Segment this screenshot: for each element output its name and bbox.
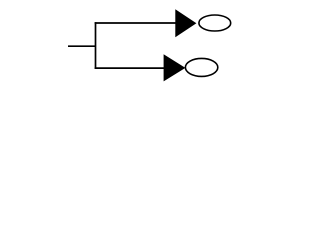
output ellipse (top branch): [199, 15, 231, 31]
wire: vertical branch bus: [95, 22, 97, 69]
buffer triangle (bottom branch): [164, 56, 184, 80]
wire: input lead: [68, 45, 96, 47]
buffer triangle (top branch): [176, 11, 195, 36]
wire: top branch: [95, 22, 177, 24]
wire: bottom branch: [95, 67, 166, 69]
output ellipse (bottom branch): [185, 58, 217, 76]
